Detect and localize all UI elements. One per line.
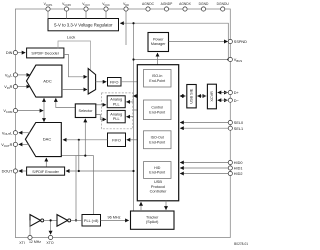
svg-text:(SpAct): (SpAct)	[146, 220, 158, 224]
pin XTI	[28, 235, 32, 239]
svg-text:HID: HID	[154, 166, 161, 170]
wire: XCVR to D-	[218, 99, 228, 101]
junction encoder line to power rail	[132, 170, 134, 172]
wire: clock line down to bottom	[93, 156, 95, 215]
wire: tracker to controller	[140, 202, 142, 211]
wire: 96 MHz to tracker	[101, 219, 129, 221]
S/PDIF encoder	[27, 167, 65, 175]
wire: FIFO1 to ISO-In	[121, 81, 141, 83]
tracker SpAct	[131, 211, 175, 229]
svg-text:Lock: Lock	[67, 35, 75, 40]
svg-text:B0278-01: B0278-01	[234, 242, 248, 246]
oscillator buffer A1	[30, 215, 41, 227]
wire: FIFO2 to DAC	[63, 139, 108, 141]
svg-text:Tracker: Tracker	[146, 215, 159, 219]
svg-text:XTI: XTI	[19, 241, 24, 245]
wire: control endpoint to PLL2	[126, 116, 133, 118]
wire: clock line left stub	[62, 155, 77, 157]
wire: DOUT output	[19, 170, 26, 172]
wire: XCVR to D+	[218, 92, 228, 94]
svg-text:ISO-In: ISO-In	[152, 74, 162, 78]
svg-text:End-Point: End-Point	[149, 171, 165, 175]
analog PLL 2	[107, 110, 125, 122]
svg-text:XCVR: XCVR	[210, 91, 214, 102]
svg-text:DIN: DIN	[6, 51, 13, 55]
wire: DAC to encoder stub	[45, 158, 47, 167]
junction power rail	[132, 22, 134, 24]
wire: power stub into PLL group	[132, 95, 134, 97]
svg-text:ADC: ADC	[43, 78, 52, 83]
pin HID2	[228, 171, 232, 175]
wire: mux to FIFO1	[96, 81, 107, 83]
svg-text:AGNDP: AGNDP	[161, 2, 174, 6]
svg-text:HID1: HID1	[234, 167, 243, 171]
wire: ADC output to mux	[62, 89, 87, 91]
wire: power rail vertical	[133, 23, 135, 211]
pin VCCX	[84, 7, 88, 11]
pin DGNDU	[221, 7, 225, 11]
wire: crystal clock to selector	[76, 119, 85, 221]
wire: Lock signal	[58, 41, 91, 70]
analog PLL 1	[107, 96, 125, 108]
wire: encoder feed line	[66, 170, 134, 172]
chip outline	[15, 9, 230, 238]
svg-text:DGND: DGND	[199, 2, 209, 6]
DAC	[25, 123, 61, 157]
wire: selector to PLL2	[96, 115, 106, 120]
USB protocol controller	[137, 65, 178, 201]
ISO-Out end-point	[144, 131, 172, 149]
svg-text:Selector: Selector	[79, 109, 94, 113]
svg-text:96 MHz: 96 MHz	[107, 216, 120, 220]
wire: FIFO2 branch to encoder	[78, 140, 80, 171]
mux M1 trapezoid	[88, 69, 95, 95]
pin D+	[228, 90, 232, 94]
pin VBUS	[228, 57, 232, 61]
svg-text:Analog: Analog	[110, 113, 122, 117]
svg-text:S/PDIF Encoder: S/PDIF Encoder	[32, 170, 59, 174]
FIFO F1	[108, 78, 122, 87]
svg-text:Power: Power	[153, 37, 164, 41]
wire: controller to tracker	[165, 201, 167, 210]
ADC	[27, 65, 62, 97]
voltage regulator	[48, 19, 119, 31]
pin SEL0	[228, 120, 232, 124]
svg-text:FIFO: FIFO	[110, 80, 119, 84]
wire: SSPND output	[169, 41, 228, 43]
wire: VCOM	[18, 110, 44, 112]
selector	[75, 104, 96, 118]
svg-text:D−: D−	[234, 99, 240, 103]
svg-text:PLL: PLL	[113, 102, 120, 106]
svg-text:DAC: DAC	[43, 137, 52, 142]
S/PDIF decoder	[27, 48, 64, 58]
wire: ISO-Out to FIFO2	[127, 139, 143, 141]
svg-text:HID2: HID2	[234, 172, 243, 176]
wire: ADC clock from selector	[56, 98, 76, 107]
pin D-	[228, 98, 232, 102]
wire: selector to PLL1	[96, 104, 106, 106]
svg-text:D+: D+	[234, 91, 240, 95]
wire: VoutL output	[19, 132, 30, 134]
svg-text:PLL (×8): PLL (×8)	[84, 219, 99, 223]
pin DIN	[13, 51, 17, 55]
analog PLL group (dashed)	[101, 93, 132, 129]
pin AGNDC	[146, 7, 150, 11]
svg-text:Control: Control	[151, 106, 163, 110]
FIFO F2	[108, 133, 126, 147]
svg-text:End-Point: End-Point	[149, 79, 165, 83]
svg-text:PLL: PLL	[113, 117, 120, 121]
pin DOUT	[13, 169, 17, 173]
pin VDD	[124, 7, 128, 11]
wire: buffer1 to buffer2	[44, 219, 57, 221]
pin VoutR	[13, 142, 17, 146]
wire: VBUS pin run left	[134, 59, 230, 61]
svg-text:SSPND: SSPND	[234, 40, 247, 44]
pin VCC	[104, 7, 108, 11]
svg-text:S/PDIF Decoder: S/PDIF Decoder	[31, 52, 59, 56]
svg-text:DOUT: DOUT	[2, 170, 13, 174]
wire: buffer2 to PLL	[71, 219, 82, 221]
power manager U-PM	[148, 33, 169, 52]
pin VCCP1	[46, 7, 50, 11]
wire: VinL input	[18, 74, 30, 76]
pin SSPND	[228, 39, 232, 43]
svg-text:End-Point: End-Point	[149, 140, 165, 144]
pin VinR	[13, 85, 17, 89]
pin HID1	[228, 166, 232, 170]
wire: XTI to buffer	[29, 220, 31, 237]
wire: HID2 input	[180, 173, 228, 175]
pin AGNDX	[183, 7, 187, 11]
wire: controller to SIE	[180, 95, 186, 97]
wire: VDD stub	[125, 9, 127, 45]
svg-text:Controller: Controller	[150, 189, 168, 194]
pin XTO	[49, 235, 53, 239]
pin VinL	[13, 73, 17, 77]
svg-text:12 MHz: 12 MHz	[29, 240, 41, 244]
wire: SIE to XCVR	[198, 95, 207, 97]
pin VCOM	[13, 109, 17, 113]
svg-text:Manager: Manager	[151, 42, 166, 46]
wire: HID0 input	[180, 162, 228, 164]
wire: VBUS to regulator (top horizontal)	[120, 23, 228, 59]
pin VoutL	[13, 131, 17, 135]
svg-text:SEL1: SEL1	[234, 127, 243, 131]
wire: DIN input	[18, 52, 26, 54]
svg-text:HID0: HID0	[234, 161, 243, 165]
wire: decoder data to mux	[64, 54, 87, 76]
wire: SEL0 input	[180, 122, 228, 124]
wire: VCOM vertical to ADC and DAC	[43, 98, 45, 121]
pin SEL1	[228, 126, 232, 130]
svg-text:XTO: XTO	[46, 241, 53, 245]
PLL (x8)	[82, 215, 101, 227]
pin HID0	[228, 160, 232, 164]
svg-text:AGNDX: AGNDX	[179, 2, 192, 6]
wire: VoutR output	[19, 143, 29, 145]
svg-text:AGNDC: AGNDC	[142, 2, 155, 6]
wire: regulator pin stubs	[48, 9, 106, 19]
wire: controller to power manager	[157, 53, 159, 65]
pin AGNDP	[164, 7, 168, 11]
wire: HID1 input	[180, 167, 228, 169]
svg-text:FIFO: FIFO	[112, 138, 121, 142]
svg-text:DGNDU: DGNDU	[217, 2, 230, 6]
ISO-In end-point	[144, 70, 172, 88]
wire: VinR input	[18, 86, 30, 88]
HID end-point	[144, 162, 172, 179]
svg-text:5-V to 3.3-V Voltage Regulator: 5-V to 3.3-V Voltage Regulator	[54, 22, 113, 27]
wire: XTO tap	[50, 220, 52, 234]
svg-text:Analog: Analog	[110, 98, 122, 102]
svg-text:SEL0: SEL0	[234, 121, 243, 125]
svg-text:End-Point: End-Point	[149, 110, 165, 114]
transceiver XCVR	[207, 84, 216, 109]
pin VCCP2	[64, 7, 68, 11]
wire: control endpoint link	[134, 109, 143, 111]
svg-text:ISO-Out: ISO-Out	[151, 136, 164, 140]
control end-point	[144, 100, 172, 120]
pin DGND	[201, 7, 205, 11]
wire: SEL1 input	[180, 127, 228, 129]
svg-text:USB SIE: USB SIE	[190, 88, 194, 103]
wire: control endpoint to PLL1	[126, 101, 133, 103]
USB SIE	[187, 85, 196, 108]
oscillator buffer A2	[57, 215, 68, 227]
